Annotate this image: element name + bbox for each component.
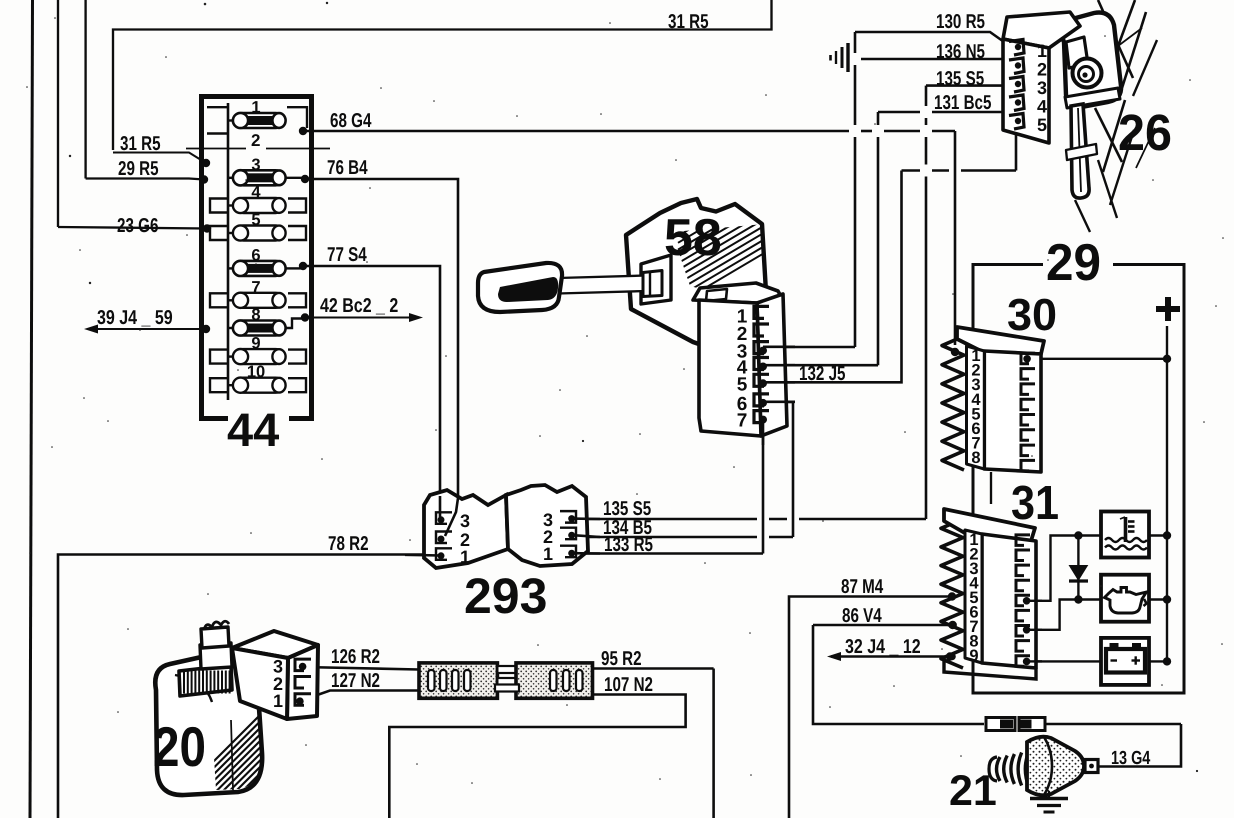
svg-text:23 G6: 23 G6 bbox=[117, 215, 158, 237]
svg-text:135 S5: 135 S5 bbox=[936, 68, 984, 90]
svg-text:126 R2: 126 R2 bbox=[331, 646, 380, 668]
svg-text:87 M4: 87 M4 bbox=[841, 576, 884, 598]
svg-text:78 R2: 78 R2 bbox=[328, 533, 369, 555]
svg-text:3: 3 bbox=[460, 511, 470, 531]
svg-text:2: 2 bbox=[251, 131, 260, 150]
svg-text:10: 10 bbox=[247, 363, 265, 381]
svg-text:20: 20 bbox=[153, 715, 206, 778]
svg-text:76 B4: 76 B4 bbox=[327, 157, 368, 179]
svg-text:31 R5: 31 R5 bbox=[120, 133, 161, 155]
svg-text:3: 3 bbox=[1037, 78, 1047, 98]
svg-text:7: 7 bbox=[737, 411, 748, 432]
svg-text:95 R2: 95 R2 bbox=[601, 648, 642, 670]
svg-text:9: 9 bbox=[251, 335, 260, 353]
svg-text:107 N2: 107 N2 bbox=[604, 674, 653, 696]
svg-text:42 Bc2 _ 2: 42 Bc2 _ 2 bbox=[320, 295, 398, 317]
svg-text:5: 5 bbox=[737, 374, 748, 395]
svg-text:77 S4: 77 S4 bbox=[327, 244, 367, 266]
svg-text:1: 1 bbox=[1037, 41, 1047, 61]
svg-text:1: 1 bbox=[543, 544, 553, 564]
svg-text:4: 4 bbox=[1037, 97, 1047, 117]
svg-text:127 N2: 127 N2 bbox=[331, 670, 380, 692]
svg-text:8: 8 bbox=[971, 449, 980, 467]
svg-text:132 J5: 132 J5 bbox=[799, 363, 845, 385]
svg-text:68 G4: 68 G4 bbox=[330, 110, 372, 132]
svg-text:26: 26 bbox=[1118, 104, 1172, 161]
svg-text:58: 58 bbox=[664, 209, 722, 267]
svg-text:1: 1 bbox=[460, 547, 470, 567]
svg-text:1: 1 bbox=[251, 99, 260, 117]
svg-text:8: 8 bbox=[251, 306, 260, 324]
svg-text:13 G4: 13 G4 bbox=[1111, 748, 1151, 769]
svg-text:133 R5: 133 R5 bbox=[604, 534, 653, 556]
svg-text:29 R5: 29 R5 bbox=[118, 158, 159, 180]
svg-text:130 R5: 130 R5 bbox=[936, 11, 985, 33]
svg-text:44: 44 bbox=[227, 403, 279, 456]
svg-text:21: 21 bbox=[949, 767, 997, 815]
svg-text:5: 5 bbox=[1037, 115, 1047, 135]
svg-text:86 V4: 86 V4 bbox=[842, 605, 882, 627]
svg-text:39 J4 _ 59: 39 J4 _ 59 bbox=[97, 307, 173, 329]
svg-text:2: 2 bbox=[1037, 60, 1047, 80]
svg-text:30: 30 bbox=[1007, 289, 1057, 340]
svg-text:293: 293 bbox=[464, 568, 547, 624]
svg-text:31 R5: 31 R5 bbox=[668, 11, 709, 33]
svg-text:3: 3 bbox=[251, 156, 260, 174]
svg-text:4: 4 bbox=[251, 184, 261, 202]
svg-text:9: 9 bbox=[969, 647, 978, 665]
svg-text:131 Bc5: 131 Bc5 bbox=[934, 92, 991, 114]
svg-text:1: 1 bbox=[273, 691, 283, 711]
svg-text:7: 7 bbox=[251, 278, 260, 296]
svg-text:32 J4 _ 12: 32 J4 _ 12 bbox=[845, 636, 921, 658]
svg-text:136 N5: 136 N5 bbox=[936, 41, 985, 63]
svg-text:5: 5 bbox=[251, 211, 260, 229]
svg-text:29: 29 bbox=[1046, 234, 1101, 292]
svg-text:31: 31 bbox=[1011, 477, 1059, 530]
svg-text:6: 6 bbox=[251, 246, 260, 264]
